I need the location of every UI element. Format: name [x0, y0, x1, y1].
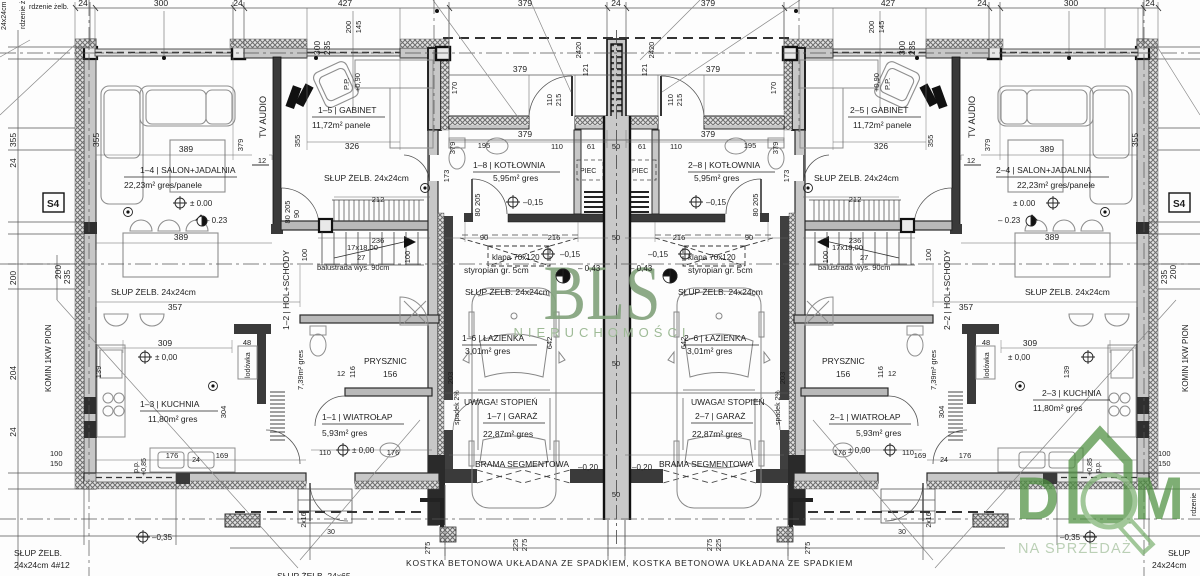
-035 level L: [138, 532, 148, 542]
svg-text:80 205: 80 205: [751, 194, 760, 217]
svg-text:90: 90: [480, 233, 488, 242]
top wall masonry segment C: [400, 48, 449, 58]
svg-text:SŁUP ŻELB. 24x24cm: SŁUP ŻELB. 24x24cm: [324, 173, 409, 183]
svg-text:P.P.: P.P.: [342, 78, 351, 90]
svg-text:236: 236: [849, 236, 862, 245]
svg-text:357: 357: [168, 302, 182, 312]
room label prysznic R: [822, 356, 865, 379]
entrance door leaf: [571, 76, 573, 116]
gabinet desk: [355, 60, 433, 148]
garage bottom wall right: [570, 469, 608, 483]
svg-text:1–4 | SALON+JADALNIA: 1–4 | SALON+JADALNIA: [140, 165, 236, 175]
svg-text:22,87m² gres: 22,87m² gres: [483, 429, 533, 439]
svg-text:300: 300: [1064, 0, 1078, 8]
top left rdzenie labels: [1, 0, 69, 30]
svg-text:2–4 | SALON+JADALNIA: 2–4 | SALON+JADALNIA: [996, 165, 1092, 175]
top wall column at x233: [232, 46, 245, 59]
gabinet black marks: [285, 85, 301, 109]
svg-text:– 0,43: – 0,43: [630, 264, 653, 273]
level marks salon L: [190, 199, 228, 225]
klapa dashed rect: [460, 238, 578, 266]
entrance exterior door arc: [310, 483, 348, 521]
exterior hatch right of entrance: [440, 527, 456, 542]
svg-text:TV AUDIO: TV AUDIO: [258, 96, 268, 138]
garage exterior driveway lines: [445, 485, 608, 545]
svg-text:642: 642: [679, 337, 688, 350]
room label salon 2-4: [996, 165, 1109, 190]
svg-text:235: 235: [322, 41, 332, 55]
room label prysznic L: [364, 356, 407, 379]
svg-text:326: 326: [345, 141, 359, 151]
svg-text:200: 200: [8, 271, 18, 285]
svg-text:12: 12: [967, 156, 975, 165]
svg-text:90: 90: [745, 233, 753, 242]
room label kotlownia 1-8: [473, 160, 560, 183]
left outer wall insulation hatch: [75, 39, 84, 489]
svg-text:100: 100: [300, 249, 309, 262]
svg-text:116: 116: [348, 366, 357, 378]
porch back wall left segment: [449, 116, 529, 129]
svg-text:30: 30: [898, 529, 906, 536]
diagonal leaders bottom corners: [57, 300, 1176, 568]
boxed 12 marker R: [964, 154, 981, 165]
svg-text:BLS: BLS: [544, 249, 661, 336]
svg-text:1–5 | GABINET: 1–5 | GABINET: [318, 105, 376, 115]
svg-text:169: 169: [216, 451, 229, 460]
svg-text:SŁUP ŻELB. 24x24cm: SŁUP ŻELB. 24x24cm: [814, 173, 899, 183]
left dim chain: [8, 30, 90, 570]
target symbol garage R: [663, 269, 677, 283]
svg-text:100: 100: [1158, 449, 1171, 458]
garage level R: [680, 249, 690, 259]
kotlownia sink: [486, 138, 508, 154]
svg-text:139: 139: [1062, 366, 1071, 379]
bottom wall kitchen: [84, 473, 306, 483]
piec dashed box: [577, 160, 603, 180]
top wall insulation A: [75, 39, 96, 48]
svg-text:styropian gr. 5cm: styropian gr. 5cm: [688, 265, 753, 275]
svg-text:12: 12: [258, 156, 266, 165]
central party wall spine: [604, 116, 630, 520]
room label kuchnia 2-3: [1033, 388, 1110, 413]
svg-text:rdzenie ż: rdzenie ż: [20, 0, 27, 29]
svg-text:balustrada wys. 90cm: balustrada wys. 90cm: [317, 263, 390, 272]
svg-text:379: 379: [983, 139, 992, 152]
svg-text:SŁUP ŻELB. 24x65: SŁUP ŻELB. 24x65: [277, 571, 351, 576]
wiatrolap basin: [380, 443, 400, 457]
svg-text:24: 24: [611, 0, 621, 8]
room label lazienka 2-6: [684, 333, 759, 356]
porch corner axis: [433, 0, 435, 132]
kotlownia bottom wall: [508, 214, 604, 222]
svg-text:389: 389: [1040, 144, 1054, 154]
svg-text:–0,15: –0,15: [648, 250, 669, 259]
room label salon 1-4: [124, 165, 237, 190]
kitchen bottom window: [96, 473, 176, 482]
svg-text:1–3 | KUCHNIA: 1–3 | KUCHNIA: [140, 399, 200, 409]
svg-text:173: 173: [782, 170, 791, 183]
prysznic door arc: [315, 396, 345, 426]
svg-text:212: 212: [849, 195, 862, 204]
room label gabinet 1-5: [312, 105, 385, 130]
svg-text:203: 203: [778, 372, 787, 385]
svg-text:spadek 2%: spadek 2%: [775, 390, 782, 425]
hol-kitchen vertical wall: [257, 324, 266, 404]
svg-text:KOSTKA BETONOWA UKŁADANA ZE SP: KOSTKA BETONOWA UKŁADANA ZE SPADKIEM, KO…: [406, 558, 853, 568]
svg-text:± 0.00: ± 0.00: [190, 199, 213, 208]
circled dot salon L: [124, 208, 133, 217]
svg-text:427: 427: [338, 0, 352, 8]
svg-text:27: 27: [357, 253, 365, 262]
room label gabinet 2-5: [848, 105, 921, 130]
kotlownia level R: [691, 197, 701, 207]
svg-text:389: 389: [179, 144, 193, 154]
lower stair flight risers: [318, 232, 424, 265]
svg-text:61: 61: [587, 142, 595, 151]
svg-text:1–1 | WIATROŁAP: 1–1 | WIATROŁAP: [322, 412, 393, 422]
svg-text:– 0.23: – 0.23: [998, 216, 1021, 225]
svg-text:215: 215: [554, 94, 563, 107]
svg-text:1–6 | ŁAZIENKA: 1–6 | ŁAZIENKA: [462, 333, 525, 343]
svg-text:50: 50: [612, 233, 620, 242]
svg-text:50: 50: [612, 359, 620, 368]
circled dot gabinet L: [421, 184, 430, 193]
svg-text:379: 379: [701, 129, 715, 139]
svg-text:203: 203: [446, 372, 455, 385]
svg-text:2x16: 2x16: [926, 512, 933, 527]
garage-side wall insulation: [438, 213, 444, 525]
exterior landing hatch: [225, 514, 260, 527]
svg-text:1–7 | GARAŻ: 1–7 | GARAŻ: [487, 411, 537, 421]
prysznic wc: [310, 326, 326, 356]
svg-text:± 0,00: ± 0,00: [352, 446, 375, 455]
svg-text:100: 100: [821, 251, 830, 264]
circled dot kuchnia L: [209, 382, 218, 391]
svg-text:PIEC: PIEC: [580, 168, 596, 175]
svg-text:24: 24: [78, 0, 88, 8]
svg-text:+0,90: +0,90: [872, 73, 881, 92]
stairs labels L: [317, 243, 390, 272]
svg-text:304: 304: [219, 406, 228, 419]
svg-text:300: 300: [154, 0, 168, 8]
boxed 12 marker L: [252, 154, 269, 165]
brama dashed lines: [477, 470, 570, 483]
svg-text:2–6 | ŁAZIENKA: 2–6 | ŁAZIENKA: [684, 333, 747, 343]
prysznic-wiatrolap wall: [345, 388, 432, 396]
svg-text:S4: S4: [1173, 199, 1186, 210]
room label garaz 2-7: [659, 397, 765, 469]
stairs labels R: [818, 243, 891, 272]
top dim line: [75, 2, 1158, 140]
svg-text:± 0,00: ± 0,00: [155, 353, 178, 362]
svg-text:± 0.00: ± 0.00: [1013, 199, 1036, 208]
svg-text:275: 275: [803, 542, 812, 555]
salon interior dim lines: [96, 142, 1137, 460]
svg-text:275: 275: [705, 539, 714, 552]
svg-text:11,72m² panele: 11,72m² panele: [853, 120, 912, 130]
svg-text:–0,20: –0,20: [632, 463, 653, 472]
bold dashed path line bottom: [235, 511, 425, 513]
outer wall axes dash-dot: [88, 0, 90, 576]
svg-text:SŁUP ŻELB. 24x24cm: SŁUP ŻELB. 24x24cm: [1025, 287, 1110, 297]
kitchen bottom counter with sink: [150, 448, 235, 472]
svg-text:S4: S4: [47, 199, 60, 210]
radiator stripes hol L: [270, 392, 285, 440]
heater stripes: [584, 192, 603, 212]
svg-text:– 0.23: – 0.23: [205, 216, 228, 225]
svg-text:139: 139: [94, 366, 103, 379]
wiatrolap level R: [885, 445, 895, 455]
svg-text:UWAGA! STOPIEŃ: UWAGA! STOPIEŃ: [691, 397, 765, 407]
dining chairs top: [130, 220, 208, 231]
svg-text:121: 121: [581, 64, 590, 77]
room label wiatrolap 2-1: [829, 412, 911, 438]
svg-text:236: 236: [372, 236, 385, 245]
svg-text:2–2 | HOL+SCHODY: 2–2 | HOL+SCHODY: [942, 250, 952, 330]
svg-text:215: 215: [675, 94, 684, 107]
svg-text:24: 24: [940, 457, 948, 464]
svg-text:5,95m² gres: 5,95m² gres: [493, 173, 538, 183]
garage level L: [543, 249, 553, 259]
piec partition: [574, 130, 581, 214]
svg-text:24: 24: [8, 158, 18, 168]
svg-text:2420: 2420: [574, 42, 583, 59]
kitchen counter left: [97, 345, 125, 437]
svg-text:lodówka: lodówka: [984, 352, 991, 378]
svg-text:110: 110: [670, 142, 682, 151]
top wall insulation B: [230, 39, 307, 48]
logo house O: [1073, 432, 1128, 519]
circled dot salon R: [1101, 208, 1110, 217]
svg-text:379: 379: [513, 64, 527, 74]
gabinet window band: [307, 49, 400, 56]
garage west wall dark: [444, 216, 453, 400]
svg-text:225: 225: [714, 539, 723, 552]
bottom wall wiatrolap segment: [355, 473, 439, 483]
bottom left slup label: [14, 548, 70, 570]
svg-text:173: 173: [442, 170, 451, 183]
prysznic shower: [400, 297, 428, 325]
horizontal axis bottom: [0, 518, 1200, 520]
svg-text:50: 50: [612, 142, 620, 151]
logo magnifier circle: [1083, 475, 1135, 527]
svg-text:235: 235: [62, 270, 72, 284]
hol-kitchen wall top: [234, 324, 271, 334]
entrance door arc: [529, 76, 572, 116]
svg-text:200: 200: [1168, 265, 1178, 279]
svg-text:BRAMA SEGMENTOWA: BRAMA SEGMENTOWA: [475, 459, 569, 469]
gabinet armchair: [312, 60, 361, 110]
upper stair flight risers: [332, 200, 424, 221]
svg-text:379: 379: [706, 64, 720, 74]
extra extension lines rooms: [96, 57, 1137, 353]
svg-text:11,80m² gres: 11,80m² gres: [148, 414, 197, 424]
svg-text:61: 61: [638, 142, 646, 151]
svg-text:balustrada wys. 90cm: balustrada wys. 90cm: [818, 263, 891, 272]
garage wall lower dark part: [428, 455, 445, 525]
svg-text:24x24cm: 24x24cm: [1152, 560, 1187, 570]
svg-text:355: 355: [91, 133, 101, 147]
diagonal leaders top-left: [0, 0, 1200, 120]
dining table: [123, 233, 218, 277]
svg-text:357: 357: [959, 302, 973, 312]
prysznic top wall: [300, 315, 439, 323]
left outer wall masonry: [84, 39, 96, 489]
node dots: [162, 9, 1071, 60]
svg-text:100: 100: [403, 251, 412, 264]
svg-text:1–8 | KOTŁOWNIA: 1–8 | KOTŁOWNIA: [473, 160, 545, 170]
svg-text:–0,20: –0,20: [578, 463, 599, 472]
svg-text:275: 275: [423, 542, 432, 555]
svg-text:2x16: 2x16: [301, 512, 308, 527]
svg-text:NA SPRZEDAŻ: NA SPRZEDAŻ: [1018, 539, 1132, 557]
svg-text:KOMIN 1KW PION: KOMIN 1KW PION: [44, 324, 53, 392]
target symbol salon R: [1026, 216, 1036, 226]
S4 marker L: [43, 193, 64, 212]
bottom wall block: [176, 472, 190, 484]
top wall corner column: [84, 47, 97, 59]
svg-text:3,01m² gres: 3,01m² gres: [465, 346, 510, 356]
svg-text:225: 225: [511, 539, 520, 552]
svg-text:2–7 | GARAŻ: 2–7 | GARAŻ: [695, 411, 745, 421]
horizontal axis middle: [0, 263, 1200, 265]
svg-text:216: 216: [673, 233, 686, 242]
salon-hol TV wall: [273, 57, 281, 226]
porch back wall right segment: [575, 116, 608, 129]
svg-text:309: 309: [158, 338, 172, 348]
stairs wall column: [319, 219, 332, 232]
svg-text:355: 355: [1130, 133, 1140, 147]
porch side wall: [428, 48, 441, 130]
svg-text:176: 176: [387, 448, 400, 457]
porch corner column: [436, 47, 450, 60]
extension line verticals from top chain: [75, 2, 1158, 116]
garage-bathroom door arc: [453, 400, 483, 430]
spine centerline: [616, 30, 618, 545]
svg-text:170: 170: [769, 82, 778, 95]
svg-text:355: 355: [926, 135, 935, 148]
svg-text:195: 195: [478, 141, 491, 150]
kuchnia level R: [1083, 352, 1093, 362]
svg-text:121: 121: [640, 64, 649, 77]
svg-text:3,01m² gres: 3,01m² gres: [687, 346, 732, 356]
room label kuchnia 1-3: [140, 399, 218, 424]
TV wall foot: [271, 224, 283, 234]
svg-text:+0,85: +0,85: [141, 458, 148, 476]
svg-text:116: 116: [876, 366, 885, 378]
dining chairs bottom: [104, 314, 164, 326]
radiator stripes hol R: [948, 392, 963, 440]
svg-text:389: 389: [174, 232, 188, 242]
svg-text:24: 24: [977, 0, 987, 8]
room label kotlownia 2-8: [688, 160, 775, 183]
svg-text:150: 150: [50, 459, 63, 468]
svg-text:300: 300: [897, 41, 907, 55]
svg-text:80 205: 80 205: [473, 194, 482, 217]
kuchnia level L: [140, 352, 150, 362]
salon window band: [95, 49, 233, 56]
svg-text:spadek 2%: spadek 2%: [454, 390, 461, 425]
-035 level R: [1085, 532, 1095, 542]
svg-text:90: 90: [292, 210, 301, 218]
svg-text:5,93m² gres: 5,93m² gres: [856, 428, 901, 438]
svg-text:176: 176: [166, 451, 179, 460]
svg-text:–0,15: –0,15: [706, 198, 727, 207]
kotlownia door arc: [472, 179, 507, 214]
garage step line: [445, 392, 604, 394]
svg-text:TV AUDIO: TV AUDIO: [967, 96, 977, 138]
right dim chain: [1143, 30, 1200, 570]
bottom dim lines: [0, 484, 1200, 560]
svg-text:1–2 | HOL+SCHODY: 1–2 | HOL+SCHODY: [281, 250, 291, 330]
svg-text:2420: 2420: [647, 42, 656, 59]
svg-text:110: 110: [545, 94, 554, 106]
svg-text:145: 145: [354, 21, 363, 34]
kotlownia toilet: [449, 138, 465, 169]
horizontal axis top: [0, 52, 1200, 54]
svg-text:235: 235: [907, 41, 917, 55]
svg-text:22,87m² gres: 22,87m² gres: [692, 429, 742, 439]
svg-text:2–3 | KUCHNIA: 2–3 | KUCHNIA: [1042, 388, 1102, 398]
svg-text:12: 12: [888, 369, 896, 378]
svg-text:M: M: [1134, 465, 1184, 532]
svg-text:27: 27: [860, 253, 868, 262]
svg-text:326: 326: [874, 141, 888, 151]
svg-text:100: 100: [50, 449, 63, 458]
svg-text:80 205: 80 205: [283, 201, 292, 224]
svg-text:110: 110: [666, 94, 675, 106]
svg-text:275: 275: [520, 539, 529, 552]
svg-text:SŁUP ŻELB. 24x24cm: SŁUP ŻELB. 24x24cm: [678, 287, 763, 297]
svg-text:110: 110: [551, 142, 563, 151]
svg-text:UWAGA! STOPIEŃ: UWAGA! STOPIEŃ: [464, 397, 538, 407]
top wall masonry segment A: [84, 48, 95, 58]
svg-text:389: 389: [1045, 232, 1059, 242]
svg-text:24x24cm 4#12: 24x24cm 4#12: [1, 0, 8, 30]
wiatrolap-hol door arc: [266, 430, 300, 464]
svg-text:200: 200: [867, 21, 876, 34]
svg-text:48: 48: [243, 338, 251, 347]
svg-text:7,39m² gres: 7,39m² gres: [296, 350, 305, 390]
svg-text:24x24cm 4#12: 24x24cm 4#12: [14, 560, 70, 570]
svg-text:156: 156: [836, 369, 850, 379]
left wall column blocks: [84, 222, 97, 487]
svg-text:216: 216: [548, 233, 561, 242]
svg-text:D: D: [1016, 465, 1059, 532]
garage bottom wall left: [445, 469, 477, 483]
svg-text:235: 235: [1159, 270, 1169, 284]
svg-text:SŁUP ŻELB. 24x24cm: SŁUP ŻELB. 24x24cm: [111, 287, 196, 297]
svg-text:11,72m² panele: 11,72m² panele: [312, 120, 371, 130]
svg-text:195: 195: [744, 141, 757, 150]
svg-text:427: 427: [881, 0, 895, 8]
svg-text:379: 379: [518, 129, 532, 139]
bottom wall kitchen insulation: [84, 481, 306, 489]
svg-text:rdzenie żelb.: rdzenie żelb.: [29, 4, 69, 11]
svg-text:2–1 | WIATROŁAP: 2–1 | WIATROŁAP: [830, 412, 901, 422]
svg-text:–0,15: –0,15: [523, 198, 544, 207]
svg-text:379: 379: [771, 142, 780, 155]
svg-text:p.p.: p.p.: [133, 461, 140, 473]
svg-text:379: 379: [518, 0, 532, 8]
exterior entrance landing outline: [298, 489, 352, 523]
svg-text:170: 170: [450, 82, 459, 95]
svg-text:355: 355: [8, 133, 18, 147]
top wall masonry segment B: [244, 48, 307, 58]
window axis lines: [164, 11, 1069, 110]
exterior step walls: [420, 500, 442, 530]
svg-text:PRYSZNIC: PRYSZNIC: [364, 356, 407, 366]
